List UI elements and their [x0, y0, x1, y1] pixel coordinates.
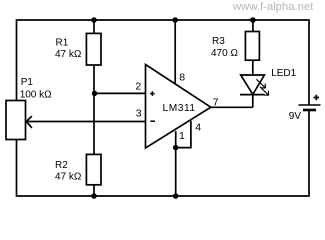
svg-text:470 Ω: 470 Ω [211, 48, 238, 59]
svg-text:2: 2 [135, 81, 141, 93]
svg-text:P1: P1 [21, 77, 34, 88]
svg-text:www.f-alpha.net: www.f-alpha.net [232, 1, 314, 13]
svg-text:47 kΩ: 47 kΩ [55, 49, 82, 60]
svg-text:100 kΩ: 100 kΩ [20, 89, 52, 100]
svg-text:8: 8 [179, 71, 185, 83]
svg-text:R3: R3 [212, 36, 225, 47]
svg-text:3: 3 [136, 108, 142, 120]
svg-text:1: 1 [179, 130, 185, 142]
svg-text:R2: R2 [55, 160, 68, 171]
svg-text:7: 7 [213, 96, 219, 108]
svg-text:LM311: LM311 [163, 103, 196, 114]
svg-text:4: 4 [195, 121, 201, 133]
svg-text:47 kΩ: 47 kΩ [55, 171, 82, 182]
svg-text:LED1: LED1 [271, 68, 296, 79]
svg-text:R1: R1 [56, 37, 69, 48]
svg-text:9V: 9V [289, 111, 302, 122]
